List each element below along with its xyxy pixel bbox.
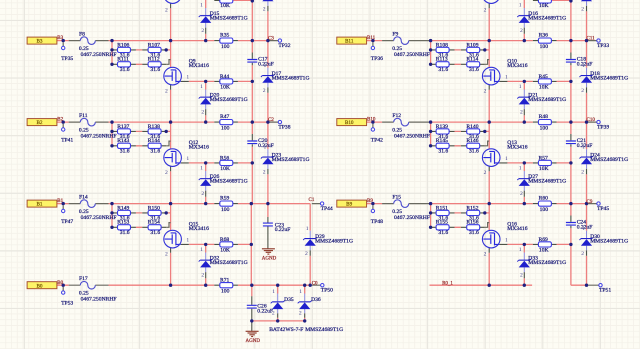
svg-text:MMSZ4689T1G: MMSZ4689T1G bbox=[210, 97, 248, 103]
svg-text:B3: B3 bbox=[57, 36, 63, 41]
svg-text:1: 1 bbox=[582, 63, 585, 69]
svg-text:R145: R145 bbox=[436, 138, 448, 144]
svg-text:R144: R144 bbox=[148, 138, 160, 144]
svg-text:F11: F11 bbox=[79, 113, 88, 119]
svg-text:R36: R36 bbox=[539, 33, 549, 39]
svg-text:2: 2 bbox=[305, 251, 308, 257]
svg-text:R151: R151 bbox=[436, 206, 448, 212]
svg-text:AGND: AGND bbox=[262, 257, 277, 262]
svg-text:B10: B10 bbox=[367, 118, 376, 123]
svg-text:31.6: 31.6 bbox=[438, 67, 448, 73]
svg-text:MX3416: MX3416 bbox=[507, 145, 527, 151]
svg-text:TP36: TP36 bbox=[371, 56, 383, 62]
svg-text:C1: C1 bbox=[309, 198, 315, 203]
svg-text:R106: R106 bbox=[117, 43, 129, 49]
svg-text:R146: R146 bbox=[466, 138, 478, 144]
svg-text:R71: R71 bbox=[220, 277, 230, 283]
svg-text:R152: R152 bbox=[466, 206, 478, 212]
svg-text:0467.250NRHF: 0467.250NRHF bbox=[394, 134, 430, 140]
svg-text:R48: R48 bbox=[539, 114, 549, 120]
svg-text:D36: D36 bbox=[311, 297, 321, 303]
svg-text:MMSZ4689T1G: MMSZ4689T1G bbox=[528, 260, 566, 266]
svg-text:0467.250NRHF: 0467.250NRHF bbox=[394, 52, 430, 58]
svg-text:1: 1 bbox=[200, 3, 203, 9]
svg-text:TP53: TP53 bbox=[61, 300, 73, 306]
svg-text:R69: R69 bbox=[539, 237, 549, 243]
svg-text:R111: R111 bbox=[117, 57, 129, 63]
svg-text:R60: R60 bbox=[539, 196, 549, 202]
svg-text:R143: R143 bbox=[117, 138, 129, 144]
svg-text:R56: R56 bbox=[220, 156, 230, 162]
svg-text:10K: 10K bbox=[539, 248, 549, 254]
svg-text:0.22uF: 0.22uF bbox=[257, 309, 273, 315]
svg-text:TP42: TP42 bbox=[371, 137, 383, 143]
svg-text:B2: B2 bbox=[36, 120, 42, 126]
svg-text:2: 2 bbox=[520, 191, 523, 197]
svg-text:R156: R156 bbox=[466, 220, 478, 226]
svg-text:R155: R155 bbox=[436, 220, 448, 226]
svg-text:2: 2 bbox=[484, 252, 487, 258]
svg-text:R0_1: R0_1 bbox=[442, 281, 453, 286]
svg-text:1: 1 bbox=[505, 156, 508, 162]
svg-text:2: 2 bbox=[263, 88, 266, 94]
svg-text:MMSZ4689T1G: MMSZ4689T1G bbox=[210, 16, 248, 22]
svg-text:R138: R138 bbox=[148, 124, 160, 130]
svg-text:MX3416: MX3416 bbox=[507, 63, 527, 69]
svg-text:C3: C3 bbox=[268, 37, 274, 42]
svg-text:TP39: TP39 bbox=[597, 124, 609, 130]
svg-text:R45: R45 bbox=[539, 74, 549, 80]
svg-text:1: 1 bbox=[186, 238, 189, 244]
svg-text:2: 2 bbox=[263, 7, 266, 13]
svg-text:R153: R153 bbox=[117, 220, 129, 226]
svg-text:1: 1 bbox=[186, 156, 189, 162]
svg-text:D35: D35 bbox=[284, 297, 294, 303]
svg-text:R139: R139 bbox=[436, 124, 448, 130]
svg-text:MX3416: MX3416 bbox=[189, 145, 209, 151]
svg-text:0467.250NRHF: 0467.250NRHF bbox=[81, 134, 117, 140]
svg-text:2: 2 bbox=[484, 170, 487, 176]
svg-text:2: 2 bbox=[520, 28, 523, 34]
svg-text:R140: R140 bbox=[466, 124, 478, 130]
svg-text:100: 100 bbox=[221, 44, 230, 50]
svg-text:R137: R137 bbox=[117, 124, 129, 130]
svg-text:0467.250NRHF: 0467.250NRHF bbox=[394, 215, 430, 221]
svg-text:2: 2 bbox=[581, 170, 584, 176]
svg-text:1: 1 bbox=[299, 289, 302, 295]
svg-text:MMSZ4689T1G: MMSZ4689T1G bbox=[528, 97, 566, 103]
svg-text:31.6: 31.6 bbox=[469, 67, 479, 73]
svg-text:10K: 10K bbox=[220, 3, 230, 9]
svg-text:2: 2 bbox=[484, 8, 487, 14]
svg-text:R114: R114 bbox=[466, 57, 478, 63]
svg-text:TP45: TP45 bbox=[597, 206, 609, 212]
svg-text:1: 1 bbox=[519, 247, 522, 253]
svg-text:2: 2 bbox=[201, 273, 204, 279]
svg-text:MMSZ4689T1G: MMSZ4689T1G bbox=[272, 157, 310, 163]
svg-text:C0: C0 bbox=[312, 282, 318, 287]
svg-text:2: 2 bbox=[263, 170, 266, 176]
svg-text:TP51: TP51 bbox=[599, 288, 611, 294]
svg-text:31.6: 31.6 bbox=[469, 149, 479, 155]
svg-text:100: 100 bbox=[540, 126, 549, 132]
svg-text:MMSZ4689T1G: MMSZ4689T1G bbox=[590, 157, 628, 163]
svg-text:TP47: TP47 bbox=[61, 219, 73, 225]
svg-text:1: 1 bbox=[264, 145, 267, 151]
svg-text:TP33: TP33 bbox=[597, 43, 609, 49]
svg-text:C9: C9 bbox=[587, 200, 593, 205]
svg-text:0467.250NRHF: 0467.250NRHF bbox=[81, 52, 117, 58]
svg-text:R59: R59 bbox=[220, 196, 230, 202]
svg-text:2: 2 bbox=[201, 28, 204, 34]
svg-text:100: 100 bbox=[221, 126, 230, 132]
svg-text:R68: R68 bbox=[220, 237, 230, 243]
svg-text:10K: 10K bbox=[539, 85, 549, 91]
svg-text:MMSZ4689T1G: MMSZ4689T1G bbox=[272, 75, 310, 81]
svg-text:TP44: TP44 bbox=[321, 206, 333, 212]
svg-text:R47: R47 bbox=[220, 114, 230, 120]
svg-text:B9: B9 bbox=[346, 202, 352, 208]
svg-text:2: 2 bbox=[581, 88, 584, 94]
svg-text:1: 1 bbox=[306, 226, 309, 232]
svg-text:B1: B1 bbox=[36, 202, 42, 208]
svg-text:100: 100 bbox=[221, 289, 230, 295]
svg-text:F17: F17 bbox=[79, 276, 88, 282]
svg-text:1: 1 bbox=[505, 238, 508, 244]
svg-text:2: 2 bbox=[299, 311, 302, 317]
svg-text:31.6: 31.6 bbox=[150, 230, 160, 236]
svg-text:1: 1 bbox=[186, 75, 189, 81]
svg-text:R154: R154 bbox=[148, 220, 160, 226]
svg-text:2: 2 bbox=[520, 273, 523, 279]
svg-text:1: 1 bbox=[519, 84, 522, 90]
svg-text:TP35: TP35 bbox=[61, 56, 73, 62]
svg-text:MMSZ4689T1G: MMSZ4689T1G bbox=[315, 238, 353, 244]
svg-text:100: 100 bbox=[221, 207, 230, 213]
svg-text:C11: C11 bbox=[587, 37, 596, 42]
svg-text:MMSZ4689T1G: MMSZ4689T1G bbox=[590, 238, 628, 244]
svg-text:31.6: 31.6 bbox=[150, 149, 160, 155]
svg-text:2: 2 bbox=[484, 89, 487, 95]
svg-text:TP38: TP38 bbox=[278, 124, 290, 130]
svg-text:R44: R44 bbox=[220, 74, 230, 80]
svg-text:MMSZ4689T1G: MMSZ4689T1G bbox=[528, 16, 566, 22]
svg-text:2: 2 bbox=[165, 252, 168, 258]
svg-text:R107: R107 bbox=[148, 43, 160, 49]
svg-text:AGND: AGND bbox=[246, 339, 261, 344]
svg-text:1: 1 bbox=[519, 3, 522, 9]
svg-text:R57: R57 bbox=[539, 156, 549, 162]
svg-text:F15: F15 bbox=[392, 195, 401, 201]
svg-text:C2: C2 bbox=[268, 118, 274, 123]
svg-text:F14: F14 bbox=[79, 195, 88, 201]
svg-text:TP32: TP32 bbox=[278, 43, 290, 49]
svg-text:TP48: TP48 bbox=[371, 219, 383, 225]
svg-text:10K: 10K bbox=[220, 85, 230, 91]
svg-text:MX3416: MX3416 bbox=[189, 226, 209, 232]
svg-text:2: 2 bbox=[581, 251, 584, 257]
svg-text:1: 1 bbox=[264, 63, 267, 69]
svg-text:MMSZ4689T1G: MMSZ4689T1G bbox=[210, 179, 248, 185]
svg-text:B10: B10 bbox=[345, 120, 354, 126]
svg-text:TP50: TP50 bbox=[321, 288, 333, 294]
svg-text:MMSZ4689T1G: MMSZ4689T1G bbox=[528, 179, 566, 185]
svg-text:2: 2 bbox=[272, 311, 275, 317]
svg-text:B9: B9 bbox=[367, 199, 373, 204]
svg-text:31.6: 31.6 bbox=[120, 67, 130, 73]
svg-text:10K: 10K bbox=[220, 248, 230, 254]
svg-text:31.6: 31.6 bbox=[120, 149, 130, 155]
svg-text:2: 2 bbox=[520, 110, 523, 116]
svg-text:31.6: 31.6 bbox=[120, 230, 130, 236]
svg-text:B11: B11 bbox=[367, 36, 376, 41]
svg-text:MMSZ4689T1G: MMSZ4689T1G bbox=[590, 75, 628, 81]
svg-text:MX3416: MX3416 bbox=[189, 63, 209, 69]
svg-text:MX3416: MX3416 bbox=[507, 226, 527, 232]
svg-text:R113: R113 bbox=[436, 57, 448, 63]
svg-text:1: 1 bbox=[505, 75, 508, 81]
svg-text:10K: 10K bbox=[539, 3, 549, 9]
svg-text:2: 2 bbox=[165, 170, 168, 176]
svg-text:31.6: 31.6 bbox=[438, 230, 448, 236]
svg-text:31.6: 31.6 bbox=[438, 149, 448, 155]
svg-text:100: 100 bbox=[540, 44, 549, 50]
svg-text:B0: B0 bbox=[57, 281, 63, 286]
svg-text:B1: B1 bbox=[57, 199, 63, 204]
svg-text:B0: B0 bbox=[36, 283, 42, 289]
svg-text:0.22uF: 0.22uF bbox=[275, 227, 291, 233]
svg-text:10K: 10K bbox=[539, 166, 549, 172]
svg-text:31.6: 31.6 bbox=[150, 67, 160, 73]
svg-text:R150: R150 bbox=[148, 206, 160, 212]
svg-text:MMSZ4689T1G: MMSZ4689T1G bbox=[210, 260, 248, 266]
svg-text:F9: F9 bbox=[392, 32, 398, 38]
svg-text:R149: R149 bbox=[117, 206, 129, 212]
svg-text:1: 1 bbox=[582, 145, 585, 151]
svg-text:2: 2 bbox=[165, 89, 168, 95]
svg-text:2: 2 bbox=[201, 191, 204, 197]
svg-text:2: 2 bbox=[165, 8, 168, 14]
svg-text:0467.250NRHF: 0467.250NRHF bbox=[81, 215, 117, 221]
svg-text:R35: R35 bbox=[220, 33, 230, 39]
svg-text:R108: R108 bbox=[436, 43, 448, 49]
svg-text:1: 1 bbox=[582, 226, 585, 232]
svg-text:2: 2 bbox=[581, 7, 584, 13]
svg-text:MMSZ4689T1G: MMSZ4689T1G bbox=[305, 327, 343, 333]
svg-text:1: 1 bbox=[200, 166, 203, 172]
svg-text:2: 2 bbox=[201, 110, 204, 116]
svg-text:B2: B2 bbox=[57, 118, 63, 123]
svg-text:10K: 10K bbox=[220, 166, 230, 172]
svg-text:TP41: TP41 bbox=[61, 137, 73, 143]
svg-text:1: 1 bbox=[519, 166, 522, 172]
svg-text:R112: R112 bbox=[148, 57, 160, 63]
svg-text:R109: R109 bbox=[466, 43, 478, 49]
svg-text:1: 1 bbox=[200, 84, 203, 90]
svg-text:31.6: 31.6 bbox=[469, 230, 479, 236]
svg-text:1: 1 bbox=[200, 247, 203, 253]
svg-text:C10: C10 bbox=[587, 118, 596, 123]
svg-text:B11: B11 bbox=[345, 39, 354, 45]
svg-text:BAT42WS-7-F: BAT42WS-7-F bbox=[269, 327, 303, 333]
svg-text:100: 100 bbox=[540, 207, 549, 213]
svg-text:F8: F8 bbox=[79, 32, 85, 38]
svg-text:0467.250NRHF: 0467.250NRHF bbox=[81, 297, 117, 303]
svg-text:B3: B3 bbox=[36, 39, 42, 45]
svg-text:1: 1 bbox=[272, 289, 275, 295]
svg-text:F12: F12 bbox=[392, 113, 401, 119]
